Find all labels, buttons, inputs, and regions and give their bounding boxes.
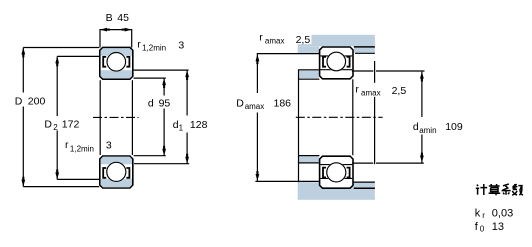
svg-text:amax: amax xyxy=(361,88,381,97)
dimension Damax: dimension line xyxy=(256,54,258,93)
char suan xyxy=(489,184,501,195)
dimension d: arrows xyxy=(162,78,166,85)
svg-text:B: B xyxy=(106,12,113,24)
dimension D2: extension lines xyxy=(57,55,99,57)
dimension B: extension lines xyxy=(99,29,101,48)
centerline (right drawing) xyxy=(296,116,383,118)
dimension D2: dimension line xyxy=(56,56,58,116)
svg-text:3: 3 xyxy=(178,39,184,51)
shaft shoulder bottom line (bottom left) xyxy=(298,162,319,164)
svg-text:13: 13 xyxy=(492,221,504,233)
svg-text:amin: amin xyxy=(419,126,436,135)
svg-text:amax: amax xyxy=(265,36,285,45)
label r amax 2,5 (middle) xyxy=(354,83,385,97)
cover bottom line (top right) xyxy=(355,52,375,54)
svg-text:d: d xyxy=(148,97,154,109)
svg-text:d: d xyxy=(413,121,419,133)
svg-text:95: 95 xyxy=(159,97,171,109)
svg-text:2: 2 xyxy=(53,123,58,132)
char xi xyxy=(502,184,511,195)
svg-text:172: 172 xyxy=(62,119,80,131)
dimension D2: arrows xyxy=(55,56,59,63)
white box for 2,5 xyxy=(293,31,312,44)
shaft shoulder (bottom left) xyxy=(298,156,319,162)
svg-text:D: D xyxy=(15,96,23,108)
dimension d1: arrows xyxy=(185,70,189,77)
svg-text:0,03: 0,03 xyxy=(492,207,513,219)
dimension B: arrows xyxy=(100,28,107,32)
svg-text:128: 128 xyxy=(190,119,208,131)
cover ring (top right) xyxy=(354,48,375,53)
shield marks xyxy=(103,168,106,178)
shaft surface line (bottom left) xyxy=(298,155,319,157)
svg-text:r: r xyxy=(137,39,141,51)
shield marks xyxy=(103,57,106,67)
svg-text:109: 109 xyxy=(445,121,463,133)
svg-text:186: 186 xyxy=(274,97,292,109)
svg-text:D: D xyxy=(236,97,244,109)
housing shoulder (top left) xyxy=(298,46,320,53)
ball xyxy=(327,52,346,71)
ball xyxy=(327,163,346,182)
bearing top section (left drawing) xyxy=(99,47,134,80)
da extension line (bottom right) xyxy=(352,162,373,164)
dimension d1: extension lines xyxy=(134,69,189,71)
char ji xyxy=(476,184,487,195)
svg-text:200: 200 xyxy=(28,96,46,108)
dimension damin: dimension line xyxy=(421,72,423,117)
bore silhouette line right xyxy=(131,80,133,155)
centerline (left drawing) xyxy=(93,116,139,118)
dimension D: dimension line xyxy=(22,48,24,93)
svg-text:2,5: 2,5 xyxy=(296,34,311,46)
Da extension line (bottom) xyxy=(255,180,319,182)
shield marks xyxy=(323,57,326,67)
dimension d1: dimension line xyxy=(186,70,188,115)
bearing top section (right drawing) xyxy=(319,46,354,79)
svg-text:2,5: 2,5 xyxy=(392,85,407,97)
bore silhouette line (right drawing, right side only) xyxy=(352,79,354,155)
housing bore line (bottom right of bearing) xyxy=(354,187,375,189)
bearing bottom section (right drawing) xyxy=(319,155,354,189)
Da extension line (top) xyxy=(257,53,320,55)
svg-text:D: D xyxy=(44,119,52,131)
dimension B: dimension line xyxy=(100,29,132,31)
cover top line (bottom right) xyxy=(353,181,375,183)
shaft shoulder face vertical line xyxy=(298,70,300,182)
bore silhouette line left xyxy=(99,80,101,155)
dimension d: extension lines xyxy=(134,77,166,79)
svg-text:1,2min: 1,2min xyxy=(70,145,94,154)
svg-text:45: 45 xyxy=(117,12,129,24)
housing bottom block xyxy=(298,182,375,200)
title (CJK strokes) xyxy=(476,184,523,195)
svg-text:1: 1 xyxy=(179,124,184,133)
ball xyxy=(107,53,126,72)
shaft shoulder (top left) xyxy=(298,70,319,78)
shield marks xyxy=(323,168,326,178)
da extension line (top right) xyxy=(352,70,373,72)
dimension damin: arrows xyxy=(420,72,424,79)
svg-text:1,2min: 1,2min xyxy=(142,43,166,52)
svg-text:r: r xyxy=(65,139,69,151)
ra extension vertical line xyxy=(374,61,376,164)
dimension d: dimension line xyxy=(163,78,165,95)
svg-text:r: r xyxy=(259,32,263,44)
svg-text:r: r xyxy=(355,84,359,96)
dimension Damax: arrows xyxy=(256,54,260,61)
svg-text:r: r xyxy=(482,211,485,220)
bearing bottom section (left drawing) xyxy=(99,155,134,189)
svg-text:0: 0 xyxy=(480,225,485,234)
housing top band xyxy=(298,35,375,46)
shaft shoulder top line (top left) xyxy=(298,69,319,71)
char shu xyxy=(512,184,523,195)
svg-text:amax: amax xyxy=(245,102,265,111)
svg-text:k: k xyxy=(475,207,481,219)
dimension D: arrows xyxy=(21,48,25,55)
housing bore line (top right of bearing) xyxy=(354,46,375,48)
dimension D: extension lines xyxy=(23,47,99,49)
shaft surface line (top left) xyxy=(298,78,319,80)
svg-text:3: 3 xyxy=(106,140,112,152)
ball xyxy=(107,162,126,181)
